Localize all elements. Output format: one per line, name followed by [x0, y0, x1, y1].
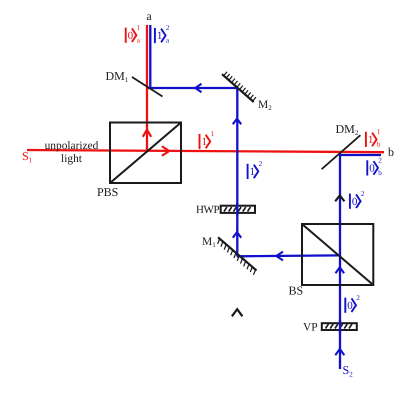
blue beam over VP — [339, 320, 341, 333]
blue beam S2 to DM2 (vertical) — [339, 154, 341, 370]
source S2 label — [343, 363, 354, 378]
blue left arrow DM1-M2 — [195, 84, 201, 92]
black up arrow below DM2 — [335, 195, 344, 201]
red right arrow in PBS — [162, 146, 170, 156]
ket |1&gt;2 blue near HWP — [248, 160, 263, 179]
svg-text:2: 2 — [356, 294, 360, 302]
svg-text:HWP: HWP — [196, 204, 220, 216]
DM1 label — [106, 69, 129, 84]
svg-text:b: b — [388, 145, 394, 159]
M2 label — [258, 99, 272, 112]
blue beam DM1 to M2 (horizontal) — [148, 87, 238, 89]
ket |1&gt;a2 blue at port a — [155, 24, 170, 44]
mirror M1 — [218, 237, 257, 275]
variable plate VP — [322, 323, 357, 330]
blue beam port b (horizontal) — [340, 154, 381, 156]
svg-text:BS: BS — [289, 284, 304, 298]
ket |0&gt;b2 blue at port b — [367, 157, 382, 177]
M1 label — [202, 236, 216, 249]
red beam S1 to b (horizontal) — [27, 150, 384, 152]
svg-text:b: b — [377, 141, 381, 149]
svg-text:a: a — [146, 9, 152, 23]
PBS label — [97, 185, 118, 199]
mirror M2 — [222, 72, 256, 102]
PBS cube — [110, 123, 181, 184]
svg-text:2: 2 — [361, 190, 365, 198]
BS label — [289, 284, 304, 298]
node a label — [146, 9, 152, 23]
blue up arrow below M2 — [233, 119, 241, 125]
half-wave plate HWP — [221, 206, 255, 213]
svg-text:b: b — [378, 169, 382, 177]
svg-text:light: light — [61, 153, 83, 165]
blue beam M1 to BS (horizontal) — [237, 254, 340, 257]
blue beam M2 to M1 (vertical) — [236, 88, 238, 257]
svg-text:1: 1 — [137, 24, 141, 32]
blue up arrow in BS — [336, 267, 345, 273]
svg-text:unpolarized: unpolarized — [45, 140, 99, 152]
blue up arrow above S2 — [335, 349, 344, 355]
svg-text:PBS: PBS — [97, 185, 118, 199]
node b label — [388, 145, 394, 159]
ket |0&gt;2 blue above VP — [345, 294, 360, 313]
ket |0&gt;a1 red at port a — [126, 24, 141, 44]
dichroic mirror DM1 — [132, 77, 163, 97]
blue up arrow above M1 — [233, 232, 241, 238]
blue beam over HWP — [236, 203, 238, 216]
red beam PBS to port a (vertical) — [146, 25, 148, 151]
source S1 label — [22, 149, 33, 164]
ket |1&gt;b1 red at port b — [366, 128, 381, 148]
dichroic mirror DM2 — [322, 135, 361, 169]
blue left arrow BS-M1 — [276, 252, 283, 261]
ket |1&gt;1 red right of PBS — [200, 130, 215, 149]
DM2 label — [336, 122, 359, 137]
svg-text:2: 2 — [166, 24, 170, 32]
VP label — [303, 322, 318, 334]
HWP label — [196, 204, 220, 216]
svg-text:VP: VP — [303, 322, 318, 334]
svg-text:1: 1 — [377, 128, 381, 136]
svg-text:2: 2 — [378, 157, 382, 165]
ket |0&gt;2 blue below DM2 — [350, 190, 365, 209]
blue beam port a (vertical) — [149, 25, 151, 89]
unpolarized light label — [45, 140, 99, 165]
svg-text:2: 2 — [259, 160, 263, 168]
caret polarization symbol — [232, 309, 243, 316]
svg-text:1: 1 — [211, 130, 215, 138]
BS cube — [302, 224, 373, 285]
red up arrow in PBS — [143, 130, 151, 137]
